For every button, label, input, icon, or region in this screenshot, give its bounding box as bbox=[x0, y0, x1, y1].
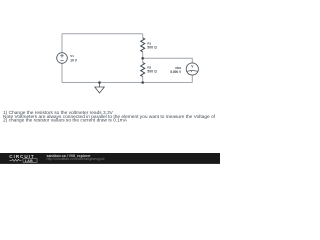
svg-text:http://circuitlab.com/c8e5a6gk: http://circuitlab.com/c8e5a6gkwvqpdc bbox=[47, 157, 105, 161]
voltmeter VM1 bbox=[186, 63, 198, 75]
footer bar bbox=[0, 153, 220, 164]
svg-text:500 Ω: 500 Ω bbox=[147, 46, 157, 50]
svg-text:V1: V1 bbox=[70, 54, 74, 58]
wire top stub above V1 bbox=[61, 34, 63, 53]
wire V1 bottom stub bbox=[61, 63, 63, 82]
node junction ground bbox=[98, 81, 101, 84]
ground bbox=[95, 87, 105, 93]
wire bottom horizontal bbox=[62, 82, 192, 84]
resistor R1 bbox=[141, 38, 145, 52]
wire R1 top stub bbox=[142, 34, 144, 38]
wire middle horizontal to voltmeter bbox=[143, 58, 193, 63]
wire R1-R2 middle stubs bbox=[142, 52, 144, 63]
svg-text:500 Ω: 500 Ω bbox=[147, 70, 157, 74]
resistor R2 bbox=[141, 63, 145, 77]
node junction R1-R2 bbox=[141, 57, 144, 60]
wire voltmeter bottom stub bbox=[191, 75, 193, 82]
node junction R2-bottom bbox=[141, 81, 144, 84]
wire R2 bottom stub bbox=[142, 77, 144, 83]
svg-text:10 V: 10 V bbox=[70, 59, 77, 63]
wire top horizontal bbox=[62, 33, 143, 35]
logo resistor zigzag bbox=[9, 159, 21, 161]
svg-text:5.000 V: 5.000 V bbox=[170, 70, 182, 74]
svg-text:2) change the resistor values: 2) change the resistor values so the cur… bbox=[3, 118, 128, 124]
voltage source V1 bbox=[57, 53, 68, 64]
svg-text:LAB: LAB bbox=[25, 159, 33, 163]
logo LAB box bbox=[23, 159, 37, 163]
wire ground stub bbox=[99, 83, 101, 88]
